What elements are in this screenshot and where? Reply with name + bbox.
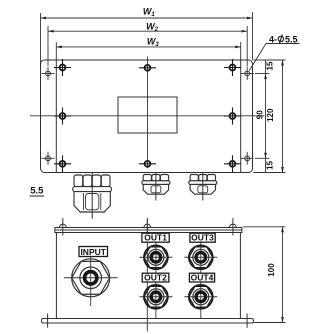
svg-text:W1: W1 bbox=[143, 7, 156, 19]
flange bolt left bbox=[47, 313, 49, 327]
svg-text:OUT1: OUT1 bbox=[144, 233, 167, 243]
flange hole top-right bbox=[241, 67, 254, 80]
dimension W3 bbox=[56, 42, 240, 60]
INPUT centerline bbox=[90, 247, 92, 307]
svg-text:120: 120 bbox=[266, 108, 275, 122]
svg-text:OUT4: OUT4 bbox=[191, 273, 214, 283]
dimension 15 (bottom) bbox=[265, 158, 267, 172]
OUT1 column centerline bbox=[155, 233, 157, 319]
svg-text:15: 15 bbox=[265, 61, 274, 70]
dimension 100 bbox=[243, 227, 286, 323]
OUT3 connector bbox=[184, 245, 217, 269]
cable gland INPUT (large, top view) bbox=[73, 173, 112, 219]
lid bolt right (front) bbox=[230, 218, 237, 236]
front view vertical axis bbox=[146, 220, 148, 332]
lid screw bottom-left bbox=[54, 155, 71, 172]
lid screw bottom-middle bbox=[139, 161, 156, 167]
flange hole bottom-left bbox=[42, 152, 55, 165]
dimension 15 (top) bbox=[265, 60, 267, 74]
label box OUT4 bbox=[189, 273, 214, 282]
right-side extension lines bbox=[254, 60, 286, 173]
top view: mounting plate outline bbox=[41, 60, 253, 173]
svg-text:5.5: 5.5 bbox=[30, 186, 44, 197]
label box OUT2 bbox=[142, 273, 169, 282]
svg-text:W3: W3 bbox=[147, 37, 160, 49]
cable gland OUT col1 (small, top view) bbox=[142, 173, 170, 201]
OUT4 connector bbox=[184, 285, 217, 309]
dimension 120 bbox=[281, 60, 284, 173]
lid screw top-right bbox=[224, 59, 241, 76]
box body left edge bbox=[55, 60, 57, 172]
terminal block rectangle bbox=[118, 97, 177, 133]
lid screw mid-right bbox=[224, 108, 241, 125]
svg-text:W2: W2 bbox=[146, 22, 159, 34]
box body right edge bbox=[240, 60, 242, 172]
dimension W1 bbox=[41, 12, 253, 65]
flange hole bottom-right bbox=[241, 152, 254, 165]
lid bolt left (front) bbox=[59, 218, 66, 236]
lid screw mid-left bbox=[54, 108, 71, 125]
lid rim mid line bbox=[55, 229, 242, 231]
svg-text:OUT3: OUT3 bbox=[191, 233, 214, 243]
lid screw top-middle bbox=[139, 65, 156, 71]
leader 4-phi5.5 bbox=[249, 35, 299, 71]
label box OUT3 bbox=[190, 233, 215, 242]
svg-text:15: 15 bbox=[265, 160, 274, 169]
horizontal centerline bbox=[30, 115, 265, 117]
OUT3 column centerline bbox=[200, 233, 202, 319]
front view: lid rim band bbox=[55, 228, 242, 233]
svg-text:4-: 4- bbox=[269, 34, 277, 44]
flange hole top-left bbox=[42, 67, 55, 80]
svg-text:100: 100 bbox=[267, 263, 276, 277]
dimension 90 bbox=[264, 74, 267, 159]
svg-text:INPUT: INPUT bbox=[80, 247, 106, 257]
svg-text:5.5: 5.5 bbox=[285, 34, 298, 44]
label box INPUT bbox=[79, 247, 108, 257]
OUT1 connector bbox=[139, 245, 172, 269]
lid bolt middle (front) bbox=[144, 218, 151, 236]
label box OUT1 bbox=[142, 233, 169, 242]
cable gland OUT col2 (small, top view) bbox=[189, 173, 217, 201]
front view: body outline bbox=[56, 233, 240, 319]
lid screw bottom-right bbox=[224, 155, 241, 172]
bottom mounting flange (front) bbox=[42, 319, 254, 324]
lid screw top-left bbox=[54, 59, 71, 76]
flange bolt right bbox=[246, 313, 248, 327]
dimension W2 bbox=[48, 26, 247, 67]
vertical centerline bbox=[147, 57, 149, 169]
INPUT connector bbox=[64, 259, 118, 297]
svg-text:90: 90 bbox=[256, 110, 265, 119]
svg-text:OUT2: OUT2 bbox=[144, 273, 167, 283]
OUT2 connector bbox=[139, 285, 172, 309]
